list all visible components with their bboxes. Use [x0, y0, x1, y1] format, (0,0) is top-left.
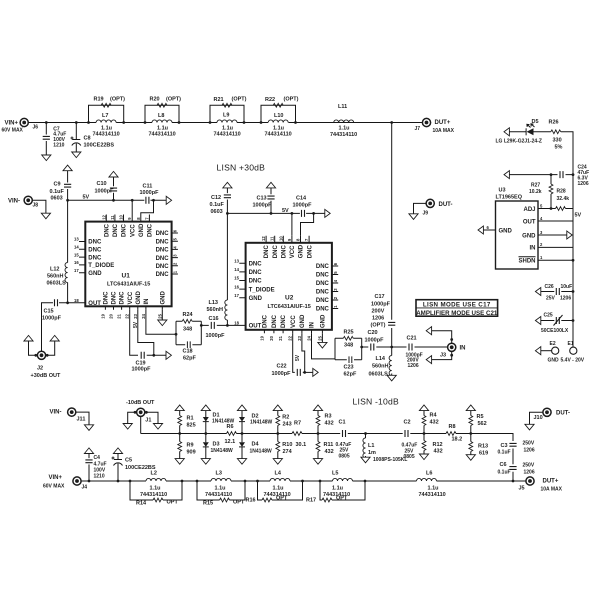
resistor R27 (horizontal) — [556, 207, 566, 211]
svg-text:(OPT): (OPT) — [232, 97, 247, 103]
svg-text:250V: 250V — [523, 440, 535, 446]
svg-text:18: 18 — [74, 298, 79, 303]
svg-text:C14: C14 — [296, 195, 307, 201]
node C5 — [117, 480, 120, 483]
resistor R2 column — [273, 405, 291, 459]
svg-text:C12: C12 — [211, 195, 221, 201]
svg-text:DNC: DNC — [156, 231, 170, 237]
svg-text:15: 15 — [234, 276, 239, 281]
svg-text:J11: J11 — [77, 417, 86, 423]
svg-text:562: 562 — [478, 421, 487, 427]
svg-text:1210: 1210 — [53, 142, 64, 148]
wire VCC drop to U1 pin 9 — [131, 200, 133, 214]
svg-text:J5: J5 — [519, 485, 525, 491]
svg-text:L13: L13 — [209, 300, 218, 306]
svg-text:10A MAX: 10A MAX — [541, 486, 563, 492]
inductor L8 with parallel resistor R20 (OPT) — [144, 97, 182, 138]
svg-text:LTC6431AIUF-15: LTC6431AIUF-15 — [107, 282, 150, 288]
svg-text:LISN MODE USE C17: LISN MODE USE C17 — [423, 301, 491, 308]
svg-text:C17: C17 — [375, 294, 385, 300]
svg-text:1008PS-105KL: 1008PS-105KL — [373, 457, 407, 463]
svg-text:DNC: DNC — [272, 314, 278, 328]
wire R24 block to C16 to U2 pin18 — [201, 324, 245, 326]
svg-text:0.1uF: 0.1uF — [50, 189, 65, 195]
svg-text:R4: R4 — [430, 413, 438, 419]
svg-text:J6: J6 — [33, 125, 39, 131]
inductor L11 — [330, 104, 357, 138]
ground below C7 — [42, 155, 51, 161]
svg-text:VIN+: VIN+ — [49, 475, 63, 481]
svg-text:+30dB OUT: +30dB OUT — [31, 373, 61, 379]
svg-text:21: 21 — [278, 335, 283, 340]
svg-text:R15: R15 — [203, 501, 213, 507]
wire U3 IN pin2 — [538, 246, 573, 248]
svg-text:R17: R17 — [306, 498, 316, 504]
wire R25 to C20 to trunk — [362, 346, 392, 348]
connector J11 VIN- — [50, 408, 86, 423]
arrow left C25 row — [535, 317, 540, 325]
terminal E2 — [548, 341, 560, 363]
svg-text:560nH: 560nH — [47, 274, 64, 280]
svg-text:10: 10 — [278, 236, 283, 241]
wire U1 pin23 GND jog — [138, 310, 154, 356]
svg-text:LISN +30dB: LISN +30dB — [217, 163, 266, 173]
svg-text:1N4148W: 1N4148W — [250, 448, 273, 454]
svg-text:1206: 1206 — [560, 295, 571, 301]
svg-text:L8: L8 — [158, 113, 164, 119]
svg-text:62pF: 62pF — [344, 372, 357, 378]
svg-text:OPT: OPT — [167, 500, 179, 506]
capacitor C6 — [498, 462, 535, 475]
connector J3 IN — [426, 327, 465, 364]
svg-text:R9: R9 — [187, 442, 194, 448]
U2 bottom pin stubs — [264, 330, 322, 334]
svg-text:744314110: 744314110 — [140, 492, 167, 498]
capacitor C22 — [272, 364, 313, 377]
svg-text:0805: 0805 — [339, 453, 350, 459]
svg-text:1000pF: 1000pF — [206, 333, 226, 339]
svg-text:E2: E2 — [550, 341, 556, 347]
svg-text:R1: R1 — [187, 415, 194, 421]
arrow left C26 row — [535, 288, 540, 296]
svg-text:DNC: DNC — [156, 264, 170, 270]
diode D3 — [203, 442, 233, 454]
svg-text:D3: D3 — [213, 442, 220, 448]
svg-text:VCC: VCC — [291, 315, 297, 328]
U2 left pin stubs — [239, 263, 245, 297]
svg-text:744314110: 744314110 — [149, 131, 176, 137]
capacitor C3 — [498, 440, 535, 455]
svg-text:R16: R16 — [246, 498, 256, 504]
svg-text:909: 909 — [187, 449, 196, 455]
svg-text:U1: U1 — [122, 273, 131, 280]
svg-text:LISN -10dB: LISN -10dB — [353, 397, 399, 407]
svg-text:250V: 250V — [523, 462, 535, 468]
svg-text:50CE100LX: 50CE100LX — [541, 328, 569, 334]
diode D1 column — [201, 405, 234, 459]
svg-text:15: 15 — [74, 252, 79, 257]
svg-text:J3: J3 — [440, 353, 446, 359]
svg-text:R22: R22 — [265, 97, 275, 103]
arrow right end of U2 rail — [325, 209, 330, 217]
svg-text:VCC: VCC — [290, 245, 296, 258]
inductor L4 with parallel resistor R16 (OPT) — [246, 471, 304, 504]
svg-text:C13: C13 — [257, 195, 267, 201]
svg-text:62pF: 62pF — [183, 356, 196, 362]
svg-text:L2: L2 — [151, 471, 157, 477]
svg-text:200V: 200V — [372, 308, 385, 314]
svg-text:(OPT): (OPT) — [110, 97, 125, 103]
svg-text:GND: GND — [499, 228, 513, 234]
svg-text:5%: 5% — [555, 145, 563, 151]
arrow U1 pin25 — [161, 310, 163, 320]
svg-text:5V: 5V — [575, 213, 582, 219]
svg-text:11: 11 — [270, 236, 275, 241]
svg-text:DNC: DNC — [307, 245, 313, 259]
svg-text:C5: C5 — [125, 458, 132, 464]
svg-text:1.1u: 1.1u — [150, 485, 161, 491]
svg-text:R28: R28 — [557, 189, 566, 195]
svg-text:0.1uF: 0.1uF — [498, 469, 511, 475]
svg-text:GND: GND — [299, 244, 305, 258]
svg-text:DNC: DNC — [104, 291, 110, 305]
wire U2 pin24 IN to R25 — [312, 333, 336, 359]
svg-text:1000pF: 1000pF — [365, 337, 385, 343]
capacitor C20 — [365, 330, 385, 351]
svg-text:19: 19 — [100, 313, 105, 318]
wire C24 row — [509, 174, 573, 176]
svg-text:1206: 1206 — [372, 315, 384, 321]
svg-text:14: 14 — [234, 267, 239, 272]
svg-text:T_DIODE: T_DIODE — [249, 287, 275, 293]
svg-text:C20: C20 — [368, 330, 378, 336]
svg-text:1000pF: 1000pF — [293, 202, 313, 208]
svg-text:1N4148W: 1N4148W — [211, 448, 234, 454]
node C9 / 5V rail — [66, 199, 69, 202]
connector J6 VIN+ — [2, 118, 39, 133]
svg-text:22: 22 — [125, 313, 130, 318]
svg-text:1.1u: 1.1u — [428, 485, 439, 491]
svg-text:560nH: 560nH — [207, 307, 224, 313]
resistor R12 — [422, 441, 443, 455]
svg-text:R19: R19 — [94, 97, 104, 103]
svg-text:LTC6431AIUF-15: LTC6431AIUF-15 — [268, 304, 311, 310]
svg-text:21: 21 — [117, 313, 122, 318]
svg-text:IN: IN — [460, 346, 466, 352]
svg-text:1.1u: 1.1u — [339, 126, 350, 132]
wire vertical trunk from top rail — [391, 123, 393, 376]
resistor R7 — [292, 420, 306, 448]
connector J7 DUT+ — [415, 118, 455, 134]
svg-text:VIN-: VIN- — [8, 198, 20, 204]
connector J1 -10dB OUT — [123, 400, 162, 433]
inductor L5 with parallel resistor R17 (OPT) — [306, 471, 366, 504]
U1 bottom pin stubs — [105, 306, 162, 310]
svg-text:J7: J7 — [415, 126, 421, 132]
svg-text:348: 348 — [183, 327, 192, 333]
svg-text:IN: IN — [144, 299, 150, 305]
U2 top pin stubs — [266, 236, 309, 243]
svg-text:R3: R3 — [325, 414, 332, 420]
svg-text:C21: C21 — [407, 336, 417, 342]
svg-text:12: 12 — [261, 236, 266, 241]
inductor L9 with parallel resistor R21 (OPT) — [209, 97, 247, 138]
capacitor C16 — [206, 316, 226, 339]
svg-text:C2: C2 — [404, 419, 411, 425]
svg-text:C8: C8 — [84, 136, 91, 142]
svg-text:12: 12 — [101, 214, 106, 219]
svg-text:744314110: 744314110 — [265, 131, 292, 137]
svg-text:1.1u: 1.1u — [273, 485, 284, 491]
connector J4 VIN+ — [43, 475, 87, 491]
svg-text:DNC: DNC — [88, 255, 102, 261]
connector J2 +30dB OUT — [24, 335, 61, 379]
wire -10dB ladder rail — [141, 434, 513, 482]
U2 right pin stubs — [332, 266, 338, 309]
wire jog to U2 pin 8 GND — [301, 213, 314, 235]
svg-text:348: 348 — [344, 342, 353, 348]
svg-text:1.1u: 1.1u — [215, 485, 226, 491]
resistor R11 — [316, 442, 334, 455]
svg-text:DNC: DNC — [316, 290, 330, 296]
svg-text:C11: C11 — [143, 183, 153, 189]
svg-text:DNC: DNC — [120, 291, 126, 305]
svg-text:DNC: DNC — [264, 245, 270, 259]
svg-text:1206: 1206 — [578, 181, 589, 187]
capacitor C12 — [210, 182, 232, 215]
wire U3 GND pin3 — [538, 234, 567, 236]
svg-text:(OPT): (OPT) — [284, 97, 299, 103]
svg-text:OUT: OUT — [88, 301, 101, 307]
svg-text:J9: J9 — [423, 211, 429, 217]
ground below L14 — [387, 375, 396, 381]
svg-text:DNC: DNC — [156, 256, 170, 262]
svg-text:R7: R7 — [294, 420, 301, 426]
svg-text:IN: IN — [310, 322, 316, 328]
capacitor C13 — [253, 182, 276, 213]
svg-text:U3: U3 — [499, 188, 506, 194]
svg-text:10.2k: 10.2k — [529, 189, 542, 195]
svg-text:DNC: DNC — [156, 248, 170, 254]
capacitor C19 — [132, 351, 167, 372]
svg-text:LT1965EQ: LT1965EQ — [496, 195, 523, 201]
svg-text:744314110: 744314110 — [205, 492, 232, 498]
node C7 tap — [45, 121, 48, 124]
svg-text:(OPT): (OPT) — [166, 97, 181, 103]
resistor R6 — [225, 424, 237, 445]
inductor L3 with parallel resistor R15 (OPT) — [196, 471, 247, 507]
svg-text:DNC: DNC — [148, 223, 154, 237]
wire right 5V rail down — [572, 175, 574, 348]
svg-text:DNC: DNC — [113, 223, 119, 237]
svg-text:GND: GND — [548, 357, 560, 363]
wire top rail L7 to L8 — [124, 122, 145, 124]
node R28 top — [550, 173, 553, 176]
svg-text:32.4k: 32.4k — [557, 196, 570, 202]
svg-text:R2: R2 — [282, 414, 289, 420]
inductor L14 — [369, 356, 392, 378]
svg-text:11: 11 — [110, 215, 115, 220]
svg-text:C9: C9 — [54, 182, 61, 188]
resistor R10 — [276, 442, 293, 455]
wire L4 to L5 — [303, 480, 321, 482]
inductor L1 — [363, 432, 408, 463]
svg-text:L12: L12 — [50, 267, 59, 273]
wire U1 pin22 VCC to C19 — [130, 310, 138, 356]
capacitor C10 — [95, 171, 119, 200]
arrow right C22 — [313, 368, 318, 376]
svg-text:-10dB OUT: -10dB OUT — [126, 400, 155, 406]
svg-text:DNC: DNC — [249, 262, 263, 268]
svg-text:AMPLIFIER MODE USE C21: AMPLIFIER MODE USE C21 — [416, 310, 498, 317]
svg-text:1000pF: 1000pF — [95, 188, 115, 194]
U1 top pin stubs — [106, 215, 149, 222]
wire L2 to L3 — [182, 480, 197, 482]
svg-text:ADJ: ADJ — [523, 207, 535, 213]
svg-text:25: 25 — [317, 335, 322, 340]
svg-text:DUT+: DUT+ — [435, 120, 451, 126]
svg-text:12.1: 12.1 — [225, 439, 236, 445]
svg-text:GND: GND — [522, 233, 536, 239]
svg-text:R21: R21 — [214, 97, 224, 103]
capacitor C21 — [406, 336, 423, 369]
capacitor C5 (polarized) — [112, 448, 156, 481]
svg-text:1000pF: 1000pF — [132, 366, 152, 372]
node trunk / C20 / C21 / L14 — [390, 346, 393, 349]
svg-text:DNC: DNC — [156, 272, 170, 278]
wire 5V rail U1 — [68, 199, 167, 201]
svg-text:GND: GND — [160, 291, 166, 305]
capacitor C25 (protection) — [541, 312, 569, 334]
svg-text:GND: GND — [300, 314, 306, 328]
wire U2 pin23 GND jog — [302, 333, 305, 372]
svg-text:22: 22 — [288, 335, 293, 340]
connector J8 VIN- — [8, 196, 38, 208]
wire E2 to arrow — [541, 350, 552, 352]
svg-text:DNC: DNC — [104, 223, 110, 237]
svg-text:13: 13 — [234, 259, 239, 264]
wire U2 pin22 VCC down — [293, 333, 295, 372]
LED D5 — [496, 119, 542, 144]
svg-text:D5: D5 — [532, 119, 539, 125]
svg-text:OUT: OUT — [249, 324, 262, 330]
svg-text:1206: 1206 — [408, 363, 419, 369]
svg-text:C6: C6 — [500, 462, 507, 468]
svg-text:0603: 0603 — [51, 196, 63, 202]
svg-text:1000pF: 1000pF — [272, 371, 292, 377]
capacitor C7 — [42, 123, 66, 156]
resistor R26 — [549, 120, 563, 151]
svg-text:0603LS: 0603LS — [47, 281, 67, 287]
svg-text:R10: R10 — [282, 442, 292, 448]
svg-text:243: 243 — [283, 422, 292, 428]
note box LISN/AMPLIFIER mode — [416, 300, 498, 317]
svg-text:DNC: DNC — [88, 240, 102, 246]
svg-text:744314110: 744314110 — [419, 492, 446, 498]
node C4 — [88, 480, 91, 483]
svg-text:DNC: DNC — [122, 223, 128, 237]
svg-text:23: 23 — [297, 335, 302, 340]
wire J10 to ground — [530, 412, 543, 424]
node C8 tap — [75, 121, 78, 124]
ground at J8 — [41, 213, 50, 219]
terminal E1 — [561, 341, 585, 363]
U1 right pin stubs — [172, 233, 178, 274]
svg-text:L5: L5 — [332, 471, 338, 477]
node after C14 — [312, 212, 315, 215]
svg-text:60V MAX: 60V MAX — [2, 128, 24, 134]
svg-text:DNC: DNC — [156, 239, 170, 245]
svg-text:432: 432 — [325, 420, 334, 426]
svg-text:R25: R25 — [344, 330, 354, 336]
wire J11 to ground — [76, 412, 89, 425]
svg-text:25V: 25V — [546, 295, 556, 301]
arrow right C19 — [166, 351, 171, 359]
svg-text:L1: L1 — [368, 443, 374, 449]
svg-text:330: 330 — [553, 138, 562, 144]
svg-text:20: 20 — [269, 335, 274, 340]
svg-text:L7: L7 — [102, 113, 108, 119]
svg-text:1m: 1m — [368, 450, 376, 456]
svg-text:C18: C18 — [183, 349, 193, 355]
node C16 / L13 — [226, 324, 229, 327]
svg-text:24: 24 — [307, 335, 312, 340]
svg-text:E1: E1 — [568, 341, 574, 347]
capacitor C11 (series on rail) — [140, 183, 160, 204]
resistor R9 — [178, 442, 196, 456]
svg-text:5V: 5V — [83, 195, 90, 201]
resistor R13 — [469, 442, 488, 457]
svg-text:C25: C25 — [544, 312, 553, 318]
svg-text:GND: GND — [136, 291, 142, 305]
svg-text:DNC: DNC — [281, 314, 287, 328]
node C22 — [303, 371, 306, 374]
svg-text:23: 23 — [133, 313, 138, 318]
svg-text:L4: L4 — [275, 471, 282, 477]
capacitor C15 — [42, 299, 62, 322]
svg-text:1.1u: 1.1u — [332, 485, 343, 491]
svg-text:R13: R13 — [478, 444, 488, 450]
wire C25 row — [541, 320, 573, 322]
resistor R8 — [446, 424, 462, 443]
svg-text:619: 619 — [479, 450, 488, 456]
resistor R1 column — [175, 405, 196, 459]
svg-text:1206: 1206 — [524, 447, 535, 453]
wire J8 to ground — [32, 200, 46, 213]
svg-text:DNC: DNC — [249, 279, 263, 285]
svg-text:432: 432 — [434, 448, 443, 454]
ground below C8 — [72, 152, 81, 158]
svg-text:IN: IN — [530, 246, 536, 252]
capacitor C14 (series on rail) — [293, 195, 313, 217]
svg-text:DNC: DNC — [316, 264, 330, 270]
svg-text:19: 19 — [259, 335, 264, 340]
wire VCC drop to U2 pin 9 — [291, 213, 293, 235]
svg-text:SHDN: SHDN — [518, 259, 535, 265]
svg-text:C26: C26 — [545, 284, 554, 290]
svg-text:1000pF: 1000pF — [371, 301, 391, 307]
svg-text:1206: 1206 — [524, 469, 535, 475]
svg-text:R8: R8 — [449, 424, 456, 430]
wire U1 OUT to C15 to J2 — [42, 303, 80, 351]
svg-text:L3: L3 — [216, 471, 222, 477]
svg-text:VCC: VCC — [128, 291, 134, 304]
svg-text:DNC: DNC — [273, 245, 279, 259]
svg-text:R6: R6 — [227, 424, 234, 430]
svg-text:25: 25 — [157, 313, 162, 318]
ground at J9 — [409, 214, 418, 220]
wire L3 to L4 — [245, 480, 258, 482]
